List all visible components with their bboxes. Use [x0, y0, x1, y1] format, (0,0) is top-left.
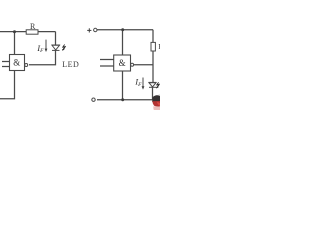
wire: left gate bottom pin to ground rail — [0, 71, 15, 99]
right gate output bubble — [131, 63, 134, 66]
op-amp U2 right NAND gate box — [114, 55, 131, 71]
current arrow (left) — [45, 40, 48, 52]
watermark logo fragment bottom-right — [152, 94, 160, 110]
junction node: left rail to gate — [13, 30, 16, 33]
svg-text:R: R — [30, 22, 36, 31]
light arrow of left LED — [62, 44, 66, 50]
wire: right LED cathode to bottom rail — [97, 87, 153, 99]
op-amp U1 left NAND gate box — [10, 55, 25, 71]
wire: right gate input stubs — [100, 59, 114, 61]
light arrow of right LED (clipped at edge) — [156, 82, 160, 88]
resistor R2 (right, vertical) — [151, 42, 155, 51]
svg-text:&: & — [119, 58, 126, 68]
wire: left LED cathode down and left to gate output — [29, 50, 56, 64]
current arrow (right) — [142, 78, 145, 90]
wire: right gate top pin — [122, 30, 124, 55]
svg-text:R: R — [158, 43, 160, 51]
wire: left VCC rail top — [0, 31, 56, 33]
svg-text:&: & — [13, 57, 20, 67]
wire: left gate input stubs — [2, 61, 10, 63]
LED D2 (right) — [149, 82, 157, 87]
wire: right chain vertical into resistor — [152, 30, 154, 43]
node: - output terminal circle — [92, 98, 95, 101]
junction node: right gate bottom to rail — [121, 98, 124, 101]
svg-text:LED: LED — [62, 60, 79, 69]
label + of input terminal — [87, 28, 91, 32]
wire: left gate top pin from rail — [14, 32, 16, 55]
left gate output bubble — [25, 64, 28, 67]
junction node: right rail to gate top — [121, 28, 124, 31]
node: + input terminal circle — [94, 28, 97, 31]
wire: right gate output to chain — [134, 64, 153, 66]
LED D1 (left) — [52, 45, 61, 50]
wire: right gate bottom pin to bottom rail — [122, 71, 124, 100]
resistor R (left) — [26, 30, 38, 34]
wire: left chain vertical down to LED — [55, 32, 57, 45]
wire: resistor to LED through output tee — [152, 51, 154, 82]
wire: right top rail from + terminal — [97, 29, 153, 31]
